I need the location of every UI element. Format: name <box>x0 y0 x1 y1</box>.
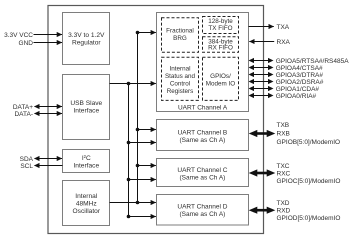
svg-text:SDA: SDA <box>20 156 34 163</box>
384-byte RX FIFO (dashed) <box>203 37 239 53</box>
svg-text:Modem IO: Modem IO <box>206 81 235 88</box>
svg-text:48MHz: 48MHz <box>76 200 97 207</box>
svg-text:TXC: TXC <box>277 163 290 170</box>
node data-C <box>127 178 131 182</box>
wire GPIOA4 <box>249 65 274 70</box>
wire GND arrow <box>34 42 63 44</box>
svg-text:RXB: RXB <box>277 130 290 137</box>
svg-text:Internal: Internal <box>75 193 98 200</box>
fractional BRG (dashed) <box>162 18 199 52</box>
wire TXA out <box>249 26 274 28</box>
wire VCC arrow <box>34 34 63 36</box>
svg-text:(Same as Ch A): (Same as Ch A) <box>179 211 225 218</box>
wire GPIOA1 <box>249 86 274 91</box>
wire channel D bus (thick double arrow) <box>249 207 276 214</box>
chip outline <box>48 6 264 234</box>
UART channel B block <box>157 120 249 151</box>
UART channel A block <box>157 13 249 112</box>
128-byte TX FIFO (dashed) <box>203 17 239 34</box>
wire GPIOA2 <box>249 79 274 84</box>
svg-text:Interface: Interface <box>73 163 99 170</box>
svg-text:UART Channel A: UART Channel A <box>178 105 228 112</box>
wire data to ch C <box>129 179 156 181</box>
svg-text:Oscillator: Oscillator <box>73 208 101 215</box>
wire RXA in <box>249 41 274 43</box>
svg-text:USB Slave: USB Slave <box>70 100 102 107</box>
svg-text:RXC: RXC <box>277 170 291 177</box>
svg-text:TXD: TXD <box>277 200 290 207</box>
wire clock to ch B <box>138 129 156 131</box>
wire SDA double arrow <box>35 158 63 160</box>
wire USB to ch A <box>110 83 156 85</box>
svg-text:3.3V VCC: 3.3V VCC <box>4 32 33 39</box>
svg-text:GPIOB[5:0]/ModemIO: GPIOB[5:0]/ModemIO <box>277 139 341 146</box>
node data-B <box>127 141 131 145</box>
svg-text:DATA-: DATA- <box>14 111 33 118</box>
svg-text:GPIOA4/CTSA#: GPIOA4/CTSA# <box>276 65 323 72</box>
internal status and control registers (dashed) <box>162 57 199 100</box>
svg-text:UART Channel D: UART Channel D <box>177 203 227 210</box>
svg-text:TX FIFO: TX FIFO <box>208 25 232 32</box>
svg-text:RX FIFO: RX FIFO <box>208 45 233 52</box>
svg-text:UART Channel C: UART Channel C <box>177 167 227 174</box>
svg-text:Status and: Status and <box>165 73 196 80</box>
wire SCL arrow out <box>35 165 63 167</box>
UART channel D block <box>157 195 249 226</box>
svg-text:TXB: TXB <box>277 122 290 129</box>
svg-text:UART Channel B: UART Channel B <box>178 130 228 137</box>
wire channel B bus (thick double arrow) <box>249 130 276 137</box>
bus2 vertical (clock bus) <box>137 33 139 203</box>
node usb-bus1 <box>127 82 131 86</box>
node clock-B <box>136 128 140 132</box>
node data-D <box>127 215 131 219</box>
wire data to ch B <box>129 142 156 144</box>
svg-text:GPIOC[5:0]/ModemIO: GPIOC[5:0]/ModemIO <box>277 178 341 185</box>
svg-text:3.3V to 1.2V: 3.3V to 1.2V <box>68 32 105 39</box>
svg-text:Internal: Internal <box>169 65 190 72</box>
svg-text:GPIOA2/DSRA#: GPIOA2/DSRA# <box>276 79 324 86</box>
svg-text:(Same as Ch A): (Same as Ch A) <box>179 175 225 182</box>
svg-text:SCL: SCL <box>20 163 33 170</box>
svg-text:Control: Control <box>170 80 190 87</box>
svg-text:GPIOA1/CDA#: GPIOA1/CDA# <box>276 86 320 93</box>
svg-text:(Same as Ch A): (Same as Ch A) <box>179 137 225 144</box>
svg-text:Interface: Interface <box>73 108 99 115</box>
wire clock to ch C <box>138 165 156 167</box>
svg-text:I2C: I2C <box>82 154 91 162</box>
wire data to ch D <box>129 216 156 218</box>
svg-text:GPIOA5/RTSA#/RS485A: GPIOA5/RTSA#/RS485A <box>276 58 350 65</box>
node clock-D <box>136 201 140 205</box>
svg-text:TXA: TXA <box>277 24 290 31</box>
internal 48MHz oscillator block <box>63 181 110 226</box>
svg-text:Fractional: Fractional <box>166 27 194 34</box>
svg-text:RXA: RXA <box>277 39 291 46</box>
wire oscillator to ch D <box>110 202 156 204</box>
svg-text:Regulator: Regulator <box>72 40 101 47</box>
wire GPIOA5 <box>249 58 274 63</box>
svg-text:Registers: Registers <box>167 88 194 95</box>
USB slave interface block <box>63 75 110 140</box>
wire DATA- double arrow <box>35 113 63 115</box>
svg-text:GPIOD[5:0]/ModemIO: GPIOD[5:0]/ModemIO <box>277 215 341 222</box>
svg-text:RXD: RXD <box>277 208 291 215</box>
I2C interface block <box>63 150 110 173</box>
node clock-busA <box>136 31 140 35</box>
svg-text:GPIOs/: GPIOs/ <box>210 73 231 80</box>
wire GPIOA3 <box>249 72 274 77</box>
GPIOs / modem IO (dashed) <box>203 57 239 100</box>
svg-text:GND: GND <box>19 40 34 47</box>
svg-text:DATA+: DATA+ <box>13 104 33 111</box>
svg-text:GPIOA0/RIA#: GPIOA0/RIA# <box>276 93 317 100</box>
wire clock to ch A <box>138 32 156 34</box>
wire DATA+ double arrow <box>35 106 63 108</box>
svg-text:GPIOA3/DTRA#: GPIOA3/DTRA# <box>276 72 324 79</box>
wire GPIOA0 <box>249 93 274 98</box>
bus1 vertical (USB data bus) <box>128 84 130 217</box>
regulator: 3.3V to 1.2V Regulator <box>63 13 110 65</box>
svg-text:BRG: BRG <box>173 35 187 42</box>
UART channel C block <box>157 159 249 187</box>
node clock-C <box>136 164 140 168</box>
wire channel C bus (thick double arrow) <box>249 169 276 176</box>
